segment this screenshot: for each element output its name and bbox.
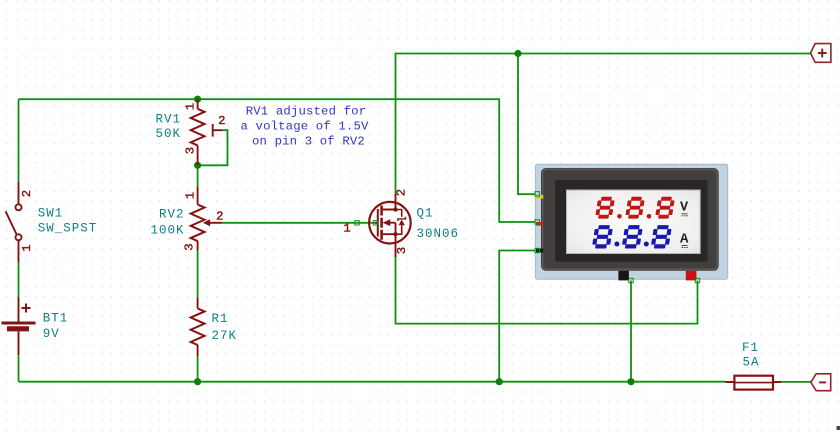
- wire: bottom rail from fuse to minus label: [781, 381, 811, 383]
- svg-text:a voltage of 1.5V: a voltage of 1.5V: [241, 120, 369, 134]
- wire: bottom rail: [19, 381, 726, 383]
- Q1 body arrow: [383, 219, 391, 226]
- switch SW1: [6, 182, 22, 262]
- junction meter bottom black on bottom rail: [627, 378, 634, 385]
- Q1 body diode triangle: [399, 220, 405, 226]
- potentiometer RV1: [198, 99, 222, 165]
- svg-text:SW_SPST: SW_SPST: [38, 221, 98, 235]
- RV2 wiper arrow: [203, 219, 210, 226]
- svg-text:3: 3: [395, 247, 409, 254]
- wire end square at Q1 gate wire start: [355, 221, 359, 225]
- wire: Q1 source down, across, up to meter bottom red lead: [396, 257, 698, 324]
- fuse F1: [726, 376, 782, 390]
- svg-text:5A: 5A: [742, 356, 759, 370]
- svg-text:50K: 50K: [155, 127, 181, 141]
- panel meter module: [535, 164, 727, 280]
- wire: BT1 - down to bottom rail: [18, 355, 20, 382]
- junction on drain rail at voltage sense tap: [514, 50, 521, 57]
- wire: Q1 drain up and across to plus output: [396, 54, 811, 195]
- svg-text:2: 2: [395, 189, 409, 196]
- wire: RV1 pin3 to RV2 pin1: [197, 165, 199, 187]
- svg-text:30N06: 30N06: [417, 227, 460, 241]
- svg-text:V: V: [680, 201, 689, 216]
- meter red digits 8.8.8: [595, 197, 675, 219]
- junction at RV1 pin 1 on top rail: [194, 96, 201, 103]
- Q1 drain node dot: [393, 207, 397, 211]
- Q1 source node dot: [393, 232, 397, 236]
- battery BT1: [2, 297, 36, 355]
- meter blue digits 8.8.8: [592, 225, 673, 248]
- svg-text:Q1: Q1: [417, 207, 434, 221]
- svg-text:R1: R1: [212, 312, 229, 326]
- wire: meter bottom black lead down to bottom rail: [630, 281, 632, 382]
- wire end square at meter black lead: [535, 248, 539, 252]
- svg-text:F1: F1: [742, 341, 759, 355]
- wire end square at Q1 gate bar: [373, 221, 377, 225]
- wire end square at meter red lead: [535, 220, 539, 224]
- wire: R1 to bottom rail: [197, 356, 199, 382]
- svg-text:2: 2: [218, 114, 225, 128]
- wire end square at meter bottom red: [695, 278, 699, 282]
- wire: RV2 pin3 to R1: [197, 249, 199, 298]
- svg-text:1: 1: [184, 192, 198, 199]
- svg-text:27K: 27K: [212, 329, 238, 343]
- wire: left rail from top corner down to SW1 pin 2: [18, 99, 20, 182]
- note text: RV1 adjustment comment: [241, 105, 369, 149]
- wire end square at meter yellow lead: [535, 192, 539, 196]
- meter bottom black terminal: [618, 271, 629, 281]
- transistor Q1: [369, 194, 411, 257]
- svg-text:RV1: RV1: [155, 113, 181, 127]
- potentiometer RV2: [198, 187, 222, 250]
- resistor R1: [197, 298, 199, 356]
- wire: RV2 wiper to Q1 gate: [222, 222, 376, 224]
- stray mark bottom right: [837, 426, 840, 430]
- svg-text:3: 3: [183, 243, 197, 250]
- svg-text:on pin 3 of RV2: on pin 3 of RV2: [252, 135, 365, 149]
- svg-text:1: 1: [184, 103, 198, 110]
- svg-text:RV1 adjusted for: RV1 adjusted for: [246, 105, 366, 119]
- svg-text:SW1: SW1: [38, 206, 64, 220]
- wire end square at meter bottom black: [629, 278, 633, 282]
- meter bottom red terminal: [686, 271, 697, 281]
- svg-text:1: 1: [20, 244, 34, 251]
- junction R1 bottom on bottom rail: [194, 378, 201, 385]
- hierarchical label plus output: [811, 44, 831, 63]
- wire: SW1 pin 1 to BT1 +: [18, 262, 20, 297]
- meter black lead stub: [536, 249, 543, 253]
- hierarchical label minus output: [811, 374, 831, 391]
- meter red lead stub: [536, 222, 543, 226]
- svg-text:9V: 9V: [43, 327, 60, 341]
- junction meter black lead on bottom rail: [496, 378, 503, 385]
- junction at RV1 pin 3 strap: [194, 162, 201, 169]
- wire: RV1 pin2 to pin3 strap: [198, 130, 228, 165]
- svg-text:100K: 100K: [150, 224, 184, 238]
- svg-text:2: 2: [216, 210, 223, 224]
- svg-text:1: 1: [343, 221, 350, 235]
- svg-text:BT1: BT1: [43, 311, 69, 325]
- wire: voltage sense branch to meter yellow lead: [518, 54, 537, 195]
- svg-text:2: 2: [20, 190, 34, 197]
- svg-text:3: 3: [184, 147, 198, 154]
- svg-text:RV2: RV2: [159, 208, 185, 222]
- meter yellow lead stub: [536, 195, 543, 199]
- wire: meter black lead left and down to bottom rail: [499, 251, 536, 382]
- wire: top-left horizontal rail to meter V+ sense, down to meter red lead: [19, 99, 537, 222]
